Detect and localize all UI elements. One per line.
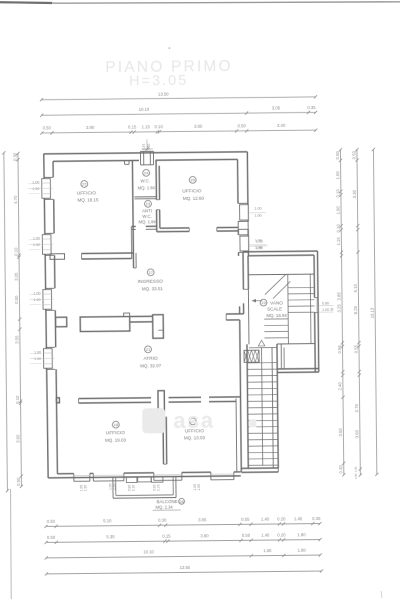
svg-text:1.90: 1.90 — [197, 484, 201, 491]
left inner dim chain 0.30 4.70 0.10 3.05 0.50 3.55 0.10 3.60 0.50 — [18, 153, 21, 486]
room label UFFICIO 12.60 — [189, 176, 196, 183]
svg-text:1.80: 1.80 — [298, 548, 307, 553]
svg-text:0.50: 0.50 — [335, 151, 340, 160]
svg-text:0.10: 0.10 — [155, 124, 164, 129]
bottom exterior wall — [48, 476, 241, 478]
svg-text:3.05: 3.05 — [14, 272, 19, 281]
svg-text:1.90: 1.90 — [32, 187, 39, 191]
svg-text:UFFICIO: UFFICIO — [182, 188, 202, 194]
svg-text:1.00: 1.00 — [322, 308, 329, 312]
svg-text:3.85: 3.85 — [336, 292, 341, 301]
svg-text:0.20: 0.20 — [277, 516, 286, 521]
svg-text:10.10: 10.10 — [139, 107, 150, 112]
room label ATRIO — [145, 346, 152, 353]
svg-text:ANTI: ANTI — [142, 208, 152, 213]
left outer dim line — [4, 153, 8, 491]
partition wall ATRIO-UFFICI left stub — [56, 398, 59, 403]
svg-text:1.60: 1.60 — [335, 171, 340, 180]
svg-text:0.80: 0.80 — [322, 301, 329, 305]
svg-text:3.30: 3.30 — [352, 189, 357, 198]
svg-text:5.10: 5.10 — [103, 518, 112, 523]
svg-text:MQ. 1.84: MQ. 1.84 — [139, 219, 157, 224]
room label INGRESSO — [147, 269, 154, 276]
svg-text:0.50: 0.50 — [238, 123, 247, 128]
svg-text:SCALE: SCALE — [267, 307, 282, 312]
bottom wall window 4 — [210, 472, 212, 480]
partition wall INGRESSO-ATRIO left stub — [56, 317, 67, 327]
scan artifact: bottom right faint mark — [381, 591, 382, 598]
left wall window 4 — [45, 346, 54, 348]
stair lower-left treads in tower — [264, 318, 288, 320]
watermark casa (light gray) — [142, 407, 256, 433]
hatched wall section block — [244, 350, 259, 362]
right outer dim line 16.13 — [373, 149, 376, 474]
stair upper flight treads — [288, 286, 314, 288]
svg-text:0.55: 0.55 — [241, 517, 250, 522]
svg-text:3.60: 3.60 — [354, 429, 359, 438]
stair shaft bottom wall — [241, 467, 278, 469]
stair tower left wall (shared with building) — [242, 252, 244, 289]
svg-text:0.70: 0.70 — [354, 403, 359, 412]
partition wall right segment — [226, 313, 243, 315]
svg-text:1.15: 1.15 — [142, 124, 151, 129]
svg-text:2.40: 2.40 — [337, 382, 342, 391]
svg-text:3.55: 3.55 — [14, 335, 19, 344]
stair shaft right wall — [272, 348, 273, 468]
svg-text:MQ. 16.94: MQ. 16.94 — [266, 313, 287, 318]
stair tower bottom wall / landing — [277, 368, 318, 370]
bottom wall window 2 — [92, 473, 94, 481]
svg-text:1.90: 1.90 — [255, 214, 262, 218]
room label ANTI W.C. — [145, 200, 152, 207]
svg-text:2.10: 2.10 — [131, 485, 135, 492]
top dim row total 13.50 — [41, 97, 315, 100]
scan artifact: left page fold line lower — [10, 489, 13, 599]
stair tower right wall window — [314, 297, 317, 299]
svg-text:3.90: 3.90 — [86, 125, 95, 130]
svg-text:UFFICIO: UFFICIO — [106, 430, 126, 436]
room label UFFICIO 13.03 — [189, 418, 196, 425]
right exterior wall upper (UFFICIO 12.60 side) — [246, 152, 249, 222]
room label UFFICIO 19.03 — [112, 421, 119, 428]
svg-text:16.13: 16.13 — [370, 307, 375, 318]
svg-text:asa: asa — [173, 408, 214, 433]
section marker triangle A — [258, 340, 265, 346]
svg-text:0.50: 0.50 — [47, 535, 56, 540]
svg-text:1.00: 1.00 — [255, 207, 262, 211]
right inner dim chain — [340, 150, 343, 475]
svg-text:VANO: VANO — [270, 300, 283, 305]
svg-text:MQ. 13.03: MQ. 13.03 — [184, 435, 206, 440]
svg-text:0.55: 0.55 — [337, 345, 342, 354]
left wall window 2 — [44, 232, 53, 234]
W.C. / ANTI W.C. divider wall — [134, 196, 156, 198]
svg-text:0.50: 0.50 — [14, 295, 19, 304]
svg-text:3.05: 3.05 — [272, 105, 281, 110]
stair direction arrow — [255, 300, 262, 302]
svg-text:ATRIO: ATRIO — [143, 356, 158, 362]
svg-text:0.15: 0.15 — [128, 124, 137, 129]
svg-text:0.10: 0.10 — [335, 189, 340, 198]
svg-text:1.60: 1.60 — [263, 548, 272, 553]
svg-text:0.50: 0.50 — [351, 150, 356, 159]
svg-text:H=3.05: H=3.05 — [129, 73, 188, 90]
bottom dim row3 10.10 1.60 1.80 — [46, 555, 320, 558]
svg-text:1.90: 1.90 — [83, 485, 87, 492]
bottom dim row2 0.50 5.35 0.15 3.60 0.50 1.40 0.20 1.80 — [46, 540, 320, 543]
svg-text:30: 30 — [330, 307, 334, 311]
left wall window 3 — [45, 287, 54, 289]
stair break diagonals — [265, 274, 286, 294]
svg-text:0.10: 0.10 — [13, 247, 18, 256]
stair tower top wall — [243, 250, 317, 253]
UFFICIO 18.15 bottom wall — [82, 252, 134, 255]
right wall window 1 (1.00/1.90) — [238, 220, 248, 222]
partition wall INGRESSO-ATRIO thin part — [130, 315, 153, 317]
partition center column (T) — [153, 315, 164, 339]
svg-text:W.C.: W.C. — [140, 178, 150, 183]
svg-text:0.35: 0.35 — [312, 516, 321, 521]
svg-text:0.30: 0.30 — [338, 465, 343, 474]
svg-text:0.10: 0.10 — [15, 395, 20, 404]
svg-text:1.90: 1.90 — [33, 243, 40, 247]
svg-text:13.55: 13.55 — [180, 565, 191, 570]
stair shaft left rail — [247, 344, 248, 468]
svg-text:1.00: 1.00 — [256, 240, 263, 244]
svg-text:3.40: 3.40 — [277, 123, 286, 128]
svg-text:0.15: 0.15 — [162, 534, 171, 539]
svg-text:1.45: 1.45 — [294, 516, 303, 521]
room label W.C. — [143, 169, 150, 176]
svg-text:MQ. 18.15: MQ. 18.15 — [77, 197, 99, 202]
svg-text:0.55: 0.55 — [353, 344, 358, 353]
left exterior wall inner face — [52, 161, 54, 177]
right wall of ATRIO / UFFICIO 13.03 — [240, 320, 242, 472]
top exterior wall — [43, 152, 247, 154]
stair shaft center rail — [262, 348, 263, 465]
svg-text:MQ. 33.51: MQ. 33.51 — [142, 286, 164, 291]
svg-text:0.50: 0.50 — [242, 533, 251, 538]
svg-text:13.50: 13.50 — [158, 91, 169, 96]
svg-text:3.25: 3.25 — [337, 304, 342, 313]
right middle dim chain — [357, 150, 360, 475]
small dot above title — [168, 47, 170, 49]
svg-text:MQ. 32.07: MQ. 32.07 — [140, 363, 162, 368]
svg-text:3.60: 3.60 — [15, 434, 20, 443]
bottom door thresholds + dims — [126, 477, 137, 483]
svg-text:5.35: 5.35 — [106, 534, 115, 539]
top dim row detail 0.50 3.90 0.15 1.15 0.10 3.80 0.50 3.40 — [42, 130, 316, 133]
bottom dim row1 0.50 5.10 0.30 3.65 0.55 1.40 0.20 1.45 0.35 — [46, 524, 320, 527]
svg-text:0.35: 0.35 — [307, 105, 316, 110]
svg-text:MQ. 19.03: MQ. 19.03 — [105, 437, 127, 442]
svg-text:0.30: 0.30 — [158, 518, 167, 523]
stairwell inner box — [248, 273, 314, 276]
svg-text:0.10: 0.10 — [336, 224, 341, 233]
left wall window 1 — [44, 176, 53, 178]
svg-text:1.40: 1.40 — [261, 516, 270, 521]
svg-text:1.90: 1.90 — [34, 357, 41, 361]
svg-text:3.80: 3.80 — [194, 124, 203, 129]
right exterior wall window 2 — [247, 229, 249, 255]
svg-text:INGRESSO: INGRESSO — [138, 279, 164, 285]
svg-text:1.60: 1.60 — [336, 206, 341, 215]
svg-text:6.10: 6.10 — [353, 283, 358, 292]
svg-text:0.50: 0.50 — [16, 477, 21, 486]
svg-text:3.60: 3.60 — [200, 533, 209, 538]
svg-text:10.10: 10.10 — [143, 549, 154, 554]
svg-text:1.80: 1.80 — [297, 532, 306, 537]
room label VANO SCALE — [260, 299, 267, 306]
partition wall between UFFICIO 19.03 and 13.03 — [162, 417, 164, 464]
scan artifact: dark top edge line — [0, 2, 400, 3]
svg-text:MQ. 2.34: MQ. 2.34 — [156, 505, 174, 510]
right wall pilaster notch — [238, 221, 248, 229]
stair shaft treads — [247, 362, 277, 364]
UFFICIO 12.60 bottom wall — [160, 227, 189, 229]
svg-text:0.95: 0.95 — [354, 473, 358, 479]
room label UFFICIO 18.15 — [81, 181, 88, 188]
svg-text:3.65: 3.65 — [198, 517, 207, 522]
svg-text:2.10: 2.10 — [156, 484, 160, 491]
svg-text:1.90: 1.90 — [256, 246, 263, 250]
svg-text:0.90: 0.90 — [354, 466, 358, 472]
svg-text:1.15: 1.15 — [336, 237, 341, 246]
cross column between offices — [158, 391, 165, 415]
svg-text:0.50: 0.50 — [47, 519, 56, 524]
svg-text:0.50: 0.50 — [43, 125, 52, 130]
svg-text:1.90: 1.90 — [33, 298, 40, 302]
balcony BALCONE railing — [112, 477, 114, 498]
svg-text:0.20: 0.20 — [277, 532, 286, 537]
svg-text:BALCONE: BALCONE — [157, 499, 178, 504]
bottom wall window 3 — [153, 473, 155, 481]
svg-text:4.70: 4.70 — [13, 195, 18, 204]
svg-text:1.40: 1.40 — [261, 532, 270, 537]
W.C. column left wall — [132, 160, 133, 267]
svg-text:MQ. 12.60: MQ. 12.60 — [183, 196, 205, 201]
svg-text:8.25: 8.25 — [353, 305, 358, 314]
svg-text:MQ. 1.84: MQ. 1.84 — [138, 185, 156, 190]
ANTI W.C. bottom wall — [131, 225, 135, 227]
bottom wall window 1 — [73, 474, 75, 482]
stair flight rail — [287, 274, 290, 343]
top dim row 10.10 / 3.05 / 0.35 — [42, 112, 316, 115]
left exterior wall outer face — [44, 154, 48, 478]
stair tower right wall — [317, 251, 318, 372]
svg-text:3.60: 3.60 — [338, 428, 343, 437]
svg-text:0.30: 0.30 — [12, 152, 17, 161]
svg-text:UFFICIO: UFFICIO — [77, 190, 97, 196]
vent shaft on top wall (W.C.) — [139, 151, 141, 164]
svg-text:W.C.: W.C. — [142, 214, 152, 219]
partition wall ATRIO-UFFICI — [79, 397, 151, 400]
bottom dim row4 13.55 — [46, 571, 321, 574]
partition wall INGRESSO-ATRIO thick band — [80, 317, 130, 332]
W.C. column right wall — [155, 160, 157, 199]
